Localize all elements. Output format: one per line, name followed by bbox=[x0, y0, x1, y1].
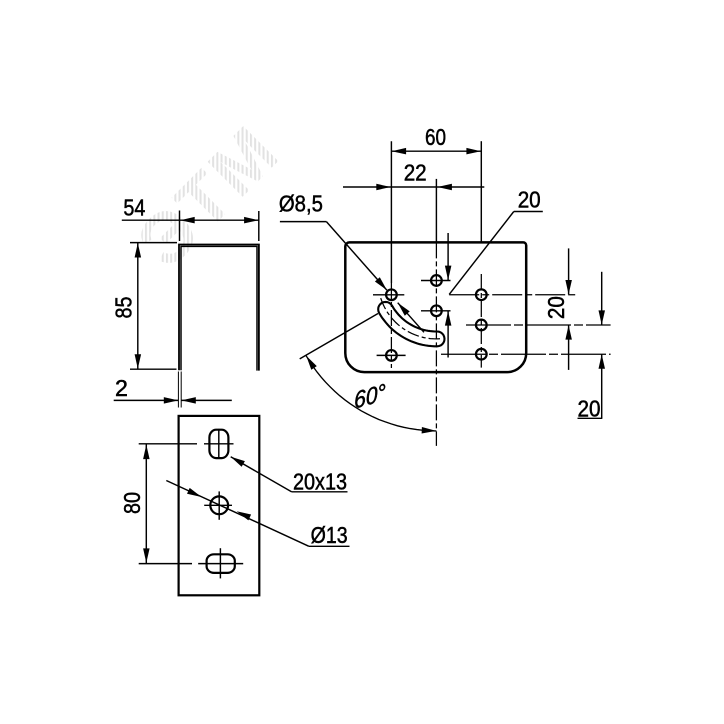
centerlines of middle hole bbox=[204, 504, 232, 506]
dimension 85 height bbox=[130, 242, 177, 244]
centerline/extension middle column x=436.4 bbox=[435, 179, 437, 243]
dimension 20 middle column bbox=[447, 233, 449, 280]
hole D8.5 H1 middle-top bbox=[431, 275, 442, 286]
row centerline H1 bbox=[421, 280, 451, 282]
centerline/extension right column x=481.3 bbox=[480, 141, 482, 242]
hole D8.5 H5 right-top bbox=[476, 289, 487, 300]
curved slot centerline arc bbox=[381, 298, 440, 339]
hole D8.5 H6 right-middle bbox=[476, 320, 487, 331]
row centerline H4 bbox=[377, 354, 406, 356]
svg-text:60: 60 bbox=[425, 124, 446, 150]
front plate outline bbox=[179, 416, 260, 595]
dimension 54 top width bbox=[179, 211, 181, 242]
dimension 80 hole spacing bbox=[145, 444, 147, 563]
hole D8.5 H2 middle-2nd bbox=[431, 305, 442, 316]
svg-text:54: 54 bbox=[123, 195, 145, 221]
hole D13 (middle) bbox=[210, 496, 228, 514]
centerlines of bottom slot bbox=[198, 563, 243, 565]
slot 20x13 horizontal (bottom) bbox=[207, 554, 235, 573]
dimension 20 right second bbox=[601, 272, 603, 325]
dimension 22 bbox=[343, 186, 484, 188]
hole D8.5 H4 left-bottom bbox=[386, 350, 397, 361]
svg-text:20: 20 bbox=[518, 186, 541, 212]
dimension 2 wall thickness bbox=[177, 372, 179, 408]
row centerline H3 bbox=[373, 294, 404, 296]
dimension 60 bbox=[391, 150, 481, 152]
leader label D8,5 with two arrows bbox=[280, 221, 327, 223]
leader label D13 with two arrows bbox=[166, 481, 309, 547]
svg-text:20: 20 bbox=[543, 296, 569, 319]
svg-text:20: 20 bbox=[578, 396, 601, 422]
curved 60-degree adjustment slot bbox=[378, 302, 444, 346]
hole D8.5 H3 left-top bbox=[386, 289, 397, 300]
svg-text:80: 80 bbox=[119, 492, 145, 514]
U-channel side view outline (54x85x2) bbox=[179, 245, 259, 371]
row centerline H7 long bbox=[441, 353, 611, 355]
slot 20x13 vertical (top) bbox=[209, 430, 228, 458]
row centerline H6 long bbox=[466, 324, 611, 326]
leader label 20x13 bbox=[231, 457, 292, 492]
svg-text:60°: 60° bbox=[354, 378, 387, 413]
svg-text:2: 2 bbox=[115, 375, 128, 401]
row centerline H2 bbox=[421, 310, 451, 312]
row centerline H5 long bbox=[449, 294, 577, 296]
centerlines of top slot bbox=[204, 443, 234, 445]
main plate outline with rounded bottom corners bbox=[345, 242, 526, 372]
dimension 20 right first bbox=[568, 248, 570, 294]
svg-text:85: 85 bbox=[110, 297, 136, 319]
svg-text:20x13: 20x13 bbox=[293, 469, 347, 495]
svg-text:Ø13: Ø13 bbox=[311, 522, 348, 548]
leader label 20 (top) bbox=[449, 212, 514, 295]
svg-text:ЭТМ: ЭТМ bbox=[122, 110, 295, 283]
svg-text:Ø8,5: Ø8,5 bbox=[279, 191, 323, 217]
centerline/extension left column x=391.4 bbox=[390, 141, 392, 283]
hole D8.5 H7 right-bottom bbox=[476, 349, 487, 360]
60 degree angle dimension bbox=[300, 314, 378, 359]
svg-text:22: 22 bbox=[404, 160, 427, 186]
